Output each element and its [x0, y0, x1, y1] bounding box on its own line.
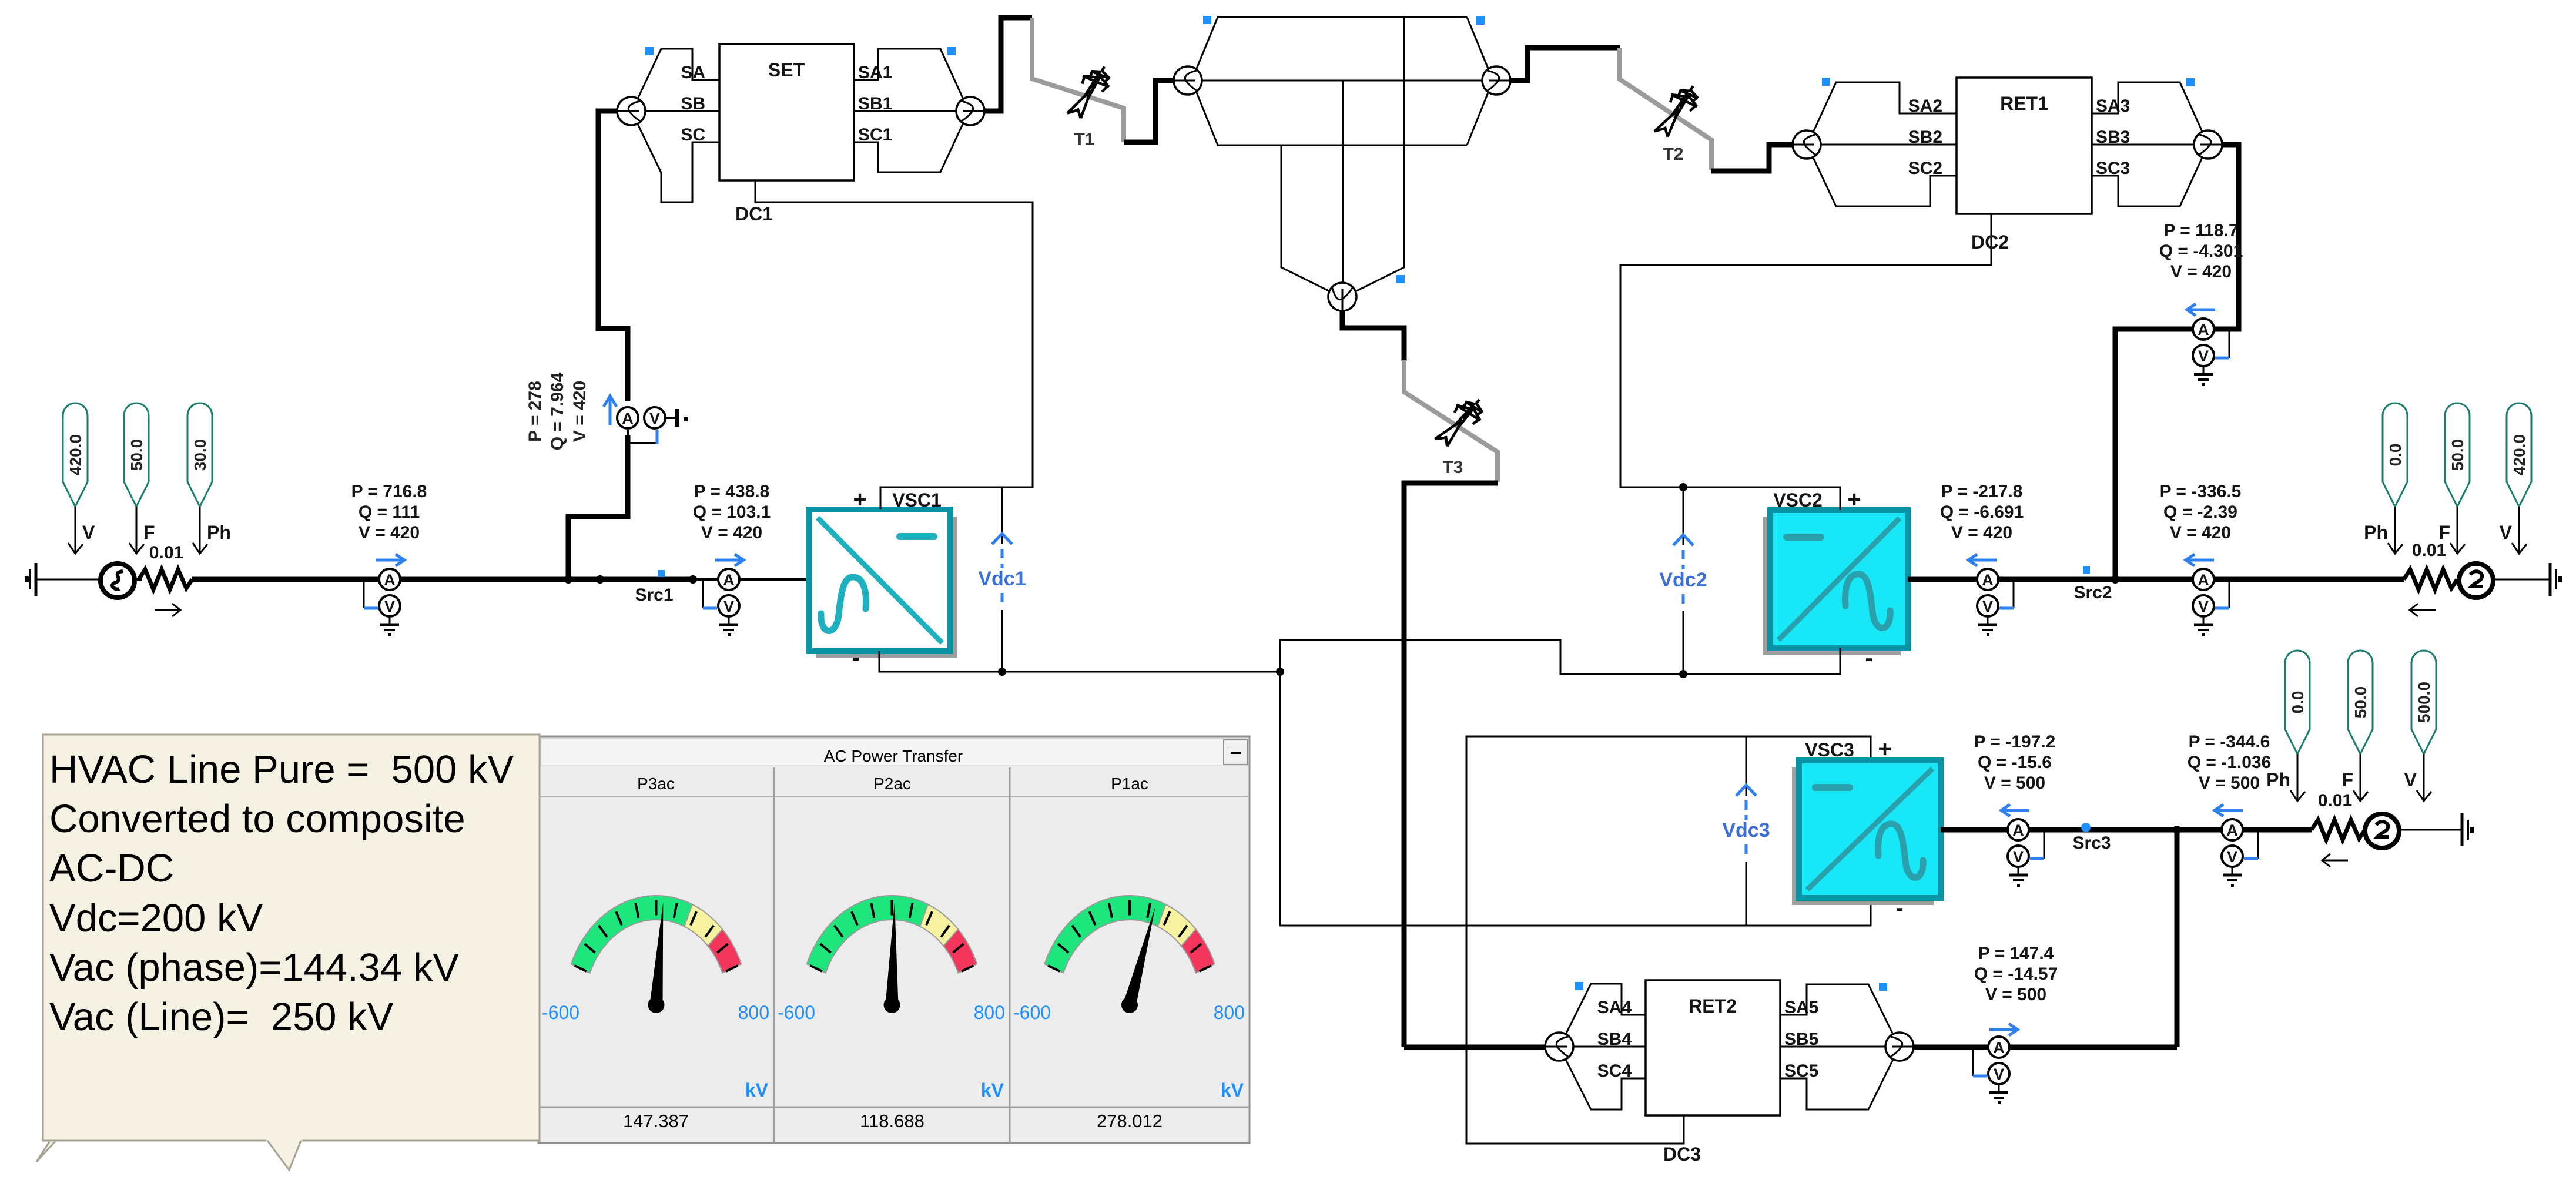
label T2 [1663, 145, 1683, 164]
tower T2 [1650, 79, 1705, 143]
svg-text:-600: -600 [1013, 1002, 1051, 1023]
label - (VSC1) [852, 645, 859, 671]
wire - SET input fan SC [638, 124, 719, 202]
block RET1 [1908, 78, 2131, 214]
svg-text:0.0: 0.0 [2386, 444, 2404, 467]
svg-text:V: V [1994, 1065, 2004, 1083]
breakout connector (line section left) [1174, 66, 1202, 95]
svg-text:SA: SA [681, 63, 705, 82]
source Es2 (420 kV right) [2459, 564, 2493, 598]
wire - grey line span at T1 [1032, 18, 1124, 142]
wire - line drop conductor C [1355, 17, 1404, 291]
svg-text:V: V [649, 410, 660, 427]
arrow blue left (RET1 meter) [2187, 304, 2215, 316]
svg-text:Q = -14.57: Q = -14.57 [1974, 964, 2058, 984]
svg-text:50.0: 50.0 [2351, 686, 2370, 719]
label P=118.7/Q=-4.301/V=420 (RET1 meter) [2159, 221, 2243, 281]
svg-text:0.01: 0.01 [2412, 541, 2446, 560]
wire - SET output fan SC1 [854, 122, 964, 172]
svg-text:800: 800 [738, 1002, 769, 1023]
svg-text:118.688: 118.688 [860, 1111, 924, 1131]
svg-text:Vdc2: Vdc2 [1659, 569, 1707, 591]
arrow blue left (VSC2 out) [1968, 554, 1997, 566]
svg-text:P = 278: P = 278 [525, 381, 545, 442]
svg-text:P2ac: P2ac [873, 775, 911, 793]
svg-text:SB: SB [681, 94, 705, 113]
junction node RET2 riser on 500 bus [2173, 826, 2181, 834]
wire - VSC3 plus rail [1466, 736, 1871, 1144]
handle (RET2 output breakout) [1879, 983, 1887, 991]
svg-text:V: V [2404, 769, 2417, 790]
svg-text:0.01: 0.01 [2318, 791, 2352, 810]
svg-text:+: + [1847, 487, 1861, 512]
svg-text:A: A [1993, 1039, 2005, 1057]
svg-text:F: F [2341, 769, 2353, 790]
svg-text:A: A [2226, 822, 2238, 839]
arrow blue up (SET feeder meter) [604, 396, 617, 425]
svg-text:kV: kV [745, 1080, 769, 1101]
svg-text:Q = 111: Q = 111 [359, 502, 420, 522]
junction node DC minus split [1276, 668, 1284, 676]
arrow slider F (left) [129, 507, 155, 554]
label DC3 [1663, 1144, 1701, 1165]
wire - thick bus into RET2 [1404, 1045, 1546, 1050]
wire - line drop conductor B [1342, 81, 1344, 293]
svg-text:Q = -4.301: Q = -4.301 [2159, 242, 2243, 261]
arrow - power direction right (left src) [155, 604, 180, 616]
handle (RET1 output breakout) [2186, 78, 2195, 86]
wire - RET2 output fan SA5 [1780, 984, 1893, 1034]
label Src1 [635, 585, 673, 605]
ammeter/voltmeter pair (500 bus) [2222, 819, 2258, 887]
wire - RET2 input fan SB4 [1573, 1046, 1646, 1048]
wire - thick T3 to RET2 bus [1404, 483, 1498, 1047]
junction node Vdc2 top [1679, 483, 1687, 491]
source Es1 (420 kV AC source) [101, 564, 135, 598]
svg-text:800: 800 [974, 1002, 1005, 1023]
svg-text:AC Power Transfer: AC Power Transfer [824, 747, 963, 765]
wire - right 420 bus [1908, 577, 2404, 582]
svg-text:Vdc=200 kV: Vdc=200 kV [49, 896, 263, 940]
arrow blue left (VSC3 out) [2001, 804, 2029, 816]
wire - RET2 output fan SB5 [1780, 1046, 1885, 1048]
svg-text:V = 500: V = 500 [2199, 773, 2260, 793]
label Src2 [2073, 583, 2112, 602]
svg-text:V: V [384, 598, 395, 615]
label + (VSC1) [853, 487, 866, 512]
svg-text:V: V [2198, 598, 2209, 615]
svg-text:V = 420: V = 420 [570, 381, 589, 442]
wire - RET1 input fan SB2 [1821, 144, 1957, 146]
arrow slider Ph (left) [193, 507, 231, 554]
svg-text:SB2: SB2 [1908, 128, 1942, 147]
svg-text:SC4: SC4 [1597, 1061, 1632, 1081]
breakout connector (SET output) [956, 97, 984, 125]
svg-text:SC2: SC2 [1908, 159, 1942, 178]
breakout connector (RET1 output) [2194, 130, 2222, 159]
handle (SET output breakout) [947, 47, 956, 55]
svg-text:420.0: 420.0 [2510, 434, 2528, 475]
svg-text:F: F [143, 522, 155, 543]
wire - DC minus to VSC3 [1280, 672, 1871, 926]
svg-text:Src2: Src2 [2073, 583, 2112, 602]
svg-text:P = -217.8: P = -217.8 [1941, 482, 2023, 501]
converter VSC3 [1792, 760, 1941, 905]
svg-text:V: V [2013, 848, 2024, 866]
label VSC3 [1805, 739, 1854, 760]
svg-text:V = 420: V = 420 [2170, 523, 2231, 542]
wire - thick RET1 output down to meter [2115, 145, 2239, 579]
svg-text:50.0: 50.0 [128, 439, 146, 471]
svg-text:Ph: Ph [2364, 522, 2388, 543]
marker Src3 [2081, 823, 2091, 832]
svg-text:Vac (phase)=144.34 kV: Vac (phase)=144.34 kV [49, 946, 459, 990]
label VSC2 [1773, 490, 1823, 511]
tower T1 [1063, 60, 1117, 125]
label - (VSC3) [1895, 895, 1903, 921]
svg-text:Q = -6.691: Q = -6.691 [1940, 502, 2024, 522]
wire - line section middle rail [1202, 80, 1482, 82]
wire - RET2 input fan SA4 [1566, 984, 1646, 1034]
ammeter/voltmeter pair (RET1 return) [2193, 319, 2229, 386]
arrow - power direction left (500 src) [2322, 854, 2348, 867]
wire - thick T1 to line section [1124, 81, 1174, 142]
wire - SET output fan SA1 [854, 49, 964, 100]
label P=-344.6/Q=-1.036/V=500 [2188, 732, 2272, 793]
junction node RET1 return on 420 bus [2111, 575, 2119, 584]
block RET2 [1597, 980, 1819, 1115]
breakout connector (line section bottom) [1328, 283, 1356, 311]
svg-text:V: V [1982, 598, 1993, 615]
svg-text:A: A [723, 571, 735, 589]
svg-text:Src3: Src3 [2072, 833, 2111, 853]
svg-text:DC3: DC3 [1663, 1144, 1701, 1165]
wire - right source to ground [2493, 579, 2542, 581]
junction node on left bus at riser [564, 575, 572, 584]
handle (line section right) [1476, 16, 1485, 25]
wire - SET input fan SA [638, 49, 719, 99]
label P=-336.5/Q=-2.39/V=420 [2160, 482, 2242, 542]
wire - thick line bottom to T3 [1342, 311, 1404, 361]
slider Ph=30.0 (left) [187, 403, 212, 507]
label Src3 [2072, 833, 2111, 853]
svg-text:P = 118.7: P = 118.7 [2163, 221, 2238, 240]
arrow blue left (right bus meter) [2186, 554, 2214, 566]
wire - SET output fan SB1 [854, 110, 956, 112]
wire - line drop conductor A [1281, 145, 1330, 291]
svg-text:AC-DC: AC-DC [49, 846, 174, 890]
label P=438.8/Q=103.1/V=420 (VSC1 input meter) [693, 482, 771, 542]
svg-text:V: V [2227, 848, 2237, 866]
wire - left AC bus [192, 577, 809, 582]
wire - VSC1 plus to DC1 riser [755, 180, 1033, 509]
svg-text:V: V [2500, 522, 2513, 543]
wire - RET1 output fan SB3 [2092, 144, 2194, 146]
svg-text:50.0: 50.0 [2448, 439, 2467, 471]
converter VSC1 [809, 509, 957, 658]
marker Src1 [658, 570, 665, 577]
label + (VSC3) [1878, 736, 1891, 762]
wire - RET1 input fan SC2 [1813, 157, 1957, 206]
label + (VSC2) [1847, 487, 1861, 512]
wire - grey line span at T2 [1620, 48, 1711, 170]
slider F=50.0 (left) [124, 403, 149, 507]
svg-text:30.0: 30.0 [191, 439, 209, 471]
wire - VSC1 minus bus [879, 651, 1280, 672]
junction dot on left bus x=1179 [689, 575, 697, 584]
wire - thick riser from left bus to SET breakout [568, 111, 628, 579]
wire - thick line right to T2 [1510, 48, 1620, 81]
label P=-217.8/Q=-6.691/V=420 [1940, 482, 2024, 542]
svg-text:SET: SET [768, 59, 805, 81]
handle (line bottom breakout) [1396, 275, 1405, 283]
svg-text:DC1: DC1 [735, 203, 773, 224]
svg-text:VSC2: VSC2 [1773, 490, 1823, 511]
label P=147.4/Q=-14.57/V=500 (RET2 out) [1974, 944, 2058, 1004]
label - (VSC2) [1865, 645, 1872, 671]
ammeter/voltmeter pair (VSC3 out) [2008, 819, 2044, 887]
label P/Q/V at left bus meter [351, 482, 427, 542]
label 0.01 (right resistor) [2412, 541, 2446, 560]
label P=278/Q=7.964/V=420 (rotated, SET feeder meter) [525, 372, 589, 450]
voltmeter Vdc1 [978, 487, 1026, 672]
resistor R=0.01 (500kV) [2312, 820, 2365, 840]
svg-text:A: A [2012, 822, 2024, 839]
svg-text:V = 500: V = 500 [1985, 985, 2046, 1004]
arrow - power direction left (right src) [2410, 604, 2436, 616]
svg-text:0.0: 0.0 [2289, 691, 2307, 714]
wire - SET input fan SB [645, 110, 719, 112]
wire - grey line span at T3 [1404, 360, 1498, 482]
wire - line section top rail [1196, 17, 1489, 70]
svg-text:VSC1: VSC1 [892, 490, 942, 511]
arrow blue right (left bus meter) [376, 554, 404, 566]
gauge P3ac = 147.387 [542, 775, 769, 1131]
svg-text:Ph: Ph [2266, 769, 2290, 790]
slider F=50.0 (500kV) [2348, 651, 2373, 754]
svg-text:800: 800 [1214, 1002, 1245, 1023]
svg-text:DC2: DC2 [1971, 232, 2009, 253]
wire - 500 source to ground [2399, 829, 2454, 831]
slider V=420.0 (right top) [2507, 403, 2531, 507]
slider Ph=0.0 (500kV) [2285, 651, 2310, 754]
arrow slider F (right top) [2438, 507, 2465, 554]
svg-text:T2: T2 [1663, 145, 1683, 164]
label P=-197.2/Q=-15.6/V=500 [1974, 732, 2056, 793]
ammeter/voltmeter pair (VSC2 out) [1977, 569, 2014, 636]
svg-text:Src1: Src1 [635, 585, 673, 605]
arrow slider Ph (500kV) [2266, 754, 2305, 801]
label DC2 [1971, 232, 2009, 253]
converter VSC2 [1763, 510, 1908, 655]
svg-text:A: A [622, 410, 634, 427]
svg-text:V = 500: V = 500 [1984, 773, 2045, 793]
source Es3 (500 kV) [2365, 814, 2399, 848]
arrow blue right (VSC1 input) [715, 554, 743, 566]
handle (line section left) [1203, 16, 1211, 24]
breakout connector (RET1 input) [1793, 130, 1821, 159]
breakout connector (line section right) [1482, 66, 1510, 95]
arrow slider V (500kV) [2404, 754, 2431, 801]
svg-text:147.387: 147.387 [623, 1111, 689, 1131]
svg-text:-: - [852, 645, 859, 671]
svg-text:Q = -1.036: Q = -1.036 [2188, 753, 2272, 772]
wire - source to resistor [135, 578, 142, 581]
voltmeter Vdc2 [1659, 487, 1707, 674]
arrow slider V (right top) [2500, 507, 2527, 554]
label T3 [1442, 458, 1463, 477]
wire - 500kV bus [1941, 827, 2312, 833]
svg-text:V = 420: V = 420 [2170, 262, 2232, 281]
svg-text:V: V [2198, 347, 2209, 365]
svg-text:T1: T1 [1074, 130, 1094, 149]
ammeter/voltmeter pair (RET2 out) [1973, 1037, 2009, 1104]
resistor R=0.01 (left) [139, 569, 192, 589]
svg-text:278.012: 278.012 [1097, 1111, 1163, 1131]
svg-text:-: - [1895, 895, 1903, 921]
wire - RET2 input fan SC4 [1566, 1060, 1646, 1109]
svg-text:+: + [1878, 736, 1891, 762]
svg-text:F: F [2438, 522, 2450, 543]
svg-text:Vac (Line)= 250 kV: Vac (Line)= 250 kV [49, 995, 394, 1039]
handle (SET input breakout) [645, 47, 654, 55]
handle (RET2 input breakout) [1575, 982, 1583, 990]
arrow slider V (left) [68, 507, 95, 554]
svg-text:V: V [82, 522, 95, 543]
svg-text:kV: kV [1221, 1080, 1244, 1101]
breakout connector (RET2 input) [1545, 1033, 1573, 1061]
svg-text:A: A [1982, 571, 1994, 589]
ground (right AC source) [2542, 563, 2562, 596]
svg-text:A: A [384, 571, 396, 589]
ground (500 kV source) [2454, 813, 2474, 846]
note bubble (HVAC line description) [36, 735, 540, 1170]
wire - thick RET2 output bus [1914, 1045, 2177, 1050]
ammeter/voltmeter pair (SET feeder, rotated) [617, 407, 688, 444]
label 0.01 (left resistor) [149, 543, 183, 562]
svg-text:kV: kV [981, 1080, 1004, 1101]
svg-text:RET1: RET1 [2000, 93, 2048, 114]
panel AC Power Transfer (frame) [538, 736, 1250, 1143]
label T1 [1074, 130, 1094, 149]
ammeter/voltmeter pair (left bus) [364, 569, 400, 636]
svg-text:Vdc1: Vdc1 [978, 568, 1026, 590]
arrow blue right (RET2 out) [1989, 1024, 2018, 1035]
svg-text:-: - [1865, 645, 1872, 671]
svg-text:SB4: SB4 [1597, 1030, 1632, 1049]
ammeter/voltmeter pair (VSC1 input) [703, 569, 739, 636]
wire - left ground to source [44, 579, 101, 581]
svg-text:P = 147.4: P = 147.4 [1978, 944, 2054, 963]
ground (left AC source) [25, 563, 44, 596]
svg-text:P1ac: P1ac [1111, 775, 1148, 793]
svg-text:A: A [2198, 571, 2209, 589]
junction node Vdc1 bottom [998, 668, 1006, 676]
gauge P2ac = 118.688 [778, 775, 1005, 1131]
arrow slider F (500kV) [2341, 754, 2368, 801]
svg-text:-600: -600 [778, 1002, 815, 1023]
block SET [681, 44, 892, 180]
slider V=420.0 (left) [63, 403, 88, 507]
svg-text:P = -336.5: P = -336.5 [2160, 482, 2242, 501]
wire - DC2 net [1620, 214, 1991, 510]
gauge P1ac = 278.012 [1013, 775, 1245, 1131]
tower T3 [1431, 391, 1490, 454]
svg-text:SC: SC [681, 125, 705, 145]
junction dot on left bus x=1021 [596, 575, 604, 584]
svg-text:P = 438.8: P = 438.8 [694, 482, 770, 501]
svg-text:VSC3: VSC3 [1805, 739, 1854, 760]
svg-text:T3: T3 [1442, 458, 1463, 477]
breakout connector (SET input) [617, 97, 645, 125]
svg-text:Q = -2.39: Q = -2.39 [2163, 502, 2237, 522]
arrow blue left (500 bus meter) [2215, 804, 2243, 816]
svg-text:A: A [2198, 321, 2209, 338]
wire - VSC2 minus stub [1840, 648, 1841, 674]
slider Ph=0.0 (right top) [2383, 403, 2407, 507]
svg-text:P = -344.6: P = -344.6 [2189, 732, 2270, 752]
svg-text:SA2: SA2 [1908, 96, 1942, 116]
ammeter/voltmeter pair (right bus) [2193, 569, 2229, 636]
svg-text:V = 420: V = 420 [701, 523, 762, 542]
svg-text:P = -197.2: P = -197.2 [1974, 732, 2056, 752]
wire - RET1 output fan SA3 [2092, 82, 2203, 133]
svg-text:SA4: SA4 [1597, 998, 1632, 1017]
svg-text:420.0: 420.0 [66, 434, 85, 475]
svg-text:HVAC Line Pure = 500 kV: HVAC Line Pure = 500 kV [49, 747, 514, 792]
svg-text:RET2: RET2 [1689, 995, 1737, 1017]
wire - thick T2 to RET1 breakout [1711, 145, 1793, 171]
wire - RET1 input fan SA2 [1813, 82, 1957, 132]
resistor R=0.01 (right) [2404, 569, 2457, 589]
wire - VSC2 plus stub [1840, 487, 1841, 510]
wire - RET2 output fan SC5 [1780, 1060, 1893, 1109]
wire - thick SET output to T1 [984, 18, 1032, 111]
svg-text:P3ac: P3ac [637, 775, 675, 793]
svg-text:Ph: Ph [207, 522, 231, 543]
wire - RET1 output fan SC3 [2092, 156, 2203, 206]
svg-text:P = 716.8: P = 716.8 [351, 482, 427, 501]
wire - DC minus to VSC2 [1280, 640, 1840, 674]
voltmeter Vdc3 [1722, 736, 1770, 926]
handle (RET1 input breakout) [1822, 78, 1830, 86]
wire - riser RET2 to 500 bus [2175, 830, 2180, 1047]
arrow slider Ph (right top) [2364, 507, 2403, 554]
svg-text:500.0: 500.0 [2415, 682, 2433, 723]
svg-text:Q = 7.964: Q = 7.964 [548, 372, 567, 450]
svg-text:Q = -15.6: Q = -15.6 [1978, 753, 2052, 772]
svg-text:V = 420: V = 420 [1951, 523, 2012, 542]
svg-text:0.01: 0.01 [149, 543, 183, 562]
svg-text:V: V [723, 598, 734, 615]
svg-text:Vdc3: Vdc3 [1722, 819, 1770, 842]
svg-text:-600: -600 [542, 1002, 579, 1023]
breakout connector (RET2 output) [1885, 1033, 1914, 1061]
svg-text:+: + [853, 487, 866, 512]
label DC1 [735, 203, 773, 224]
svg-text:V = 420: V = 420 [359, 523, 420, 542]
svg-text:Converted to composite: Converted to composite [49, 797, 465, 841]
marker Src2 [2083, 566, 2090, 574]
junction node Vdc2 bottom [1679, 670, 1687, 678]
svg-text:Q = 103.1: Q = 103.1 [693, 502, 771, 522]
label 0.01 (500kV resistor) [2318, 791, 2352, 810]
slider F=50.0 (right top) [2445, 403, 2470, 507]
label VSC1 [892, 490, 942, 511]
slider V=500.0 (500kV) [2411, 651, 2436, 754]
wire - line section bottom rail [1196, 91, 1489, 145]
